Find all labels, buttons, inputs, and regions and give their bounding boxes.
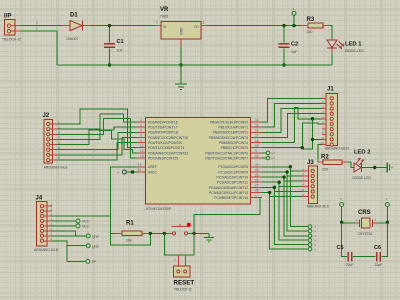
svg-text:PD7/AIN1/PCINT23: PD7/AIN1/PCINT23: [148, 156, 178, 160]
capacitor C2 wires: [283, 26, 285, 43]
svg-text:PC3/ADC3/PCINT11: PC3/ADC3/PCINT11: [217, 181, 248, 185]
connector J1 pin 6: [330, 122, 333, 125]
wire J2 pin2 staircase to chip PD6: [57, 129, 137, 153]
svg-text:C1: C1: [117, 39, 124, 45]
connector J3 pin 2: [311, 174, 314, 177]
I/P pin 1 stub: [11, 30, 22, 32]
connector J3 pin 5: [311, 190, 314, 193]
svg-text:gnd: gnd: [93, 244, 99, 248]
capacitor C5 plates: [347, 252, 349, 262]
terminal A3 circle: [308, 238, 312, 242]
svg-text:DIODE-LED: DIODE-LED: [353, 176, 372, 180]
wire junction down to J1 pin9: [313, 119, 323, 140]
terminal A4 circle: [308, 243, 312, 247]
svg-text:220: 220: [322, 168, 328, 172]
junction reset block pin1 node: [163, 232, 166, 235]
terminal AVCC input circle: [122, 170, 126, 174]
resistor R3 pins: [301, 25, 308, 27]
svg-text:18: 18: [255, 139, 259, 143]
connector J2 pin 5: [47, 143, 50, 146]
svg-text:14: 14: [255, 118, 259, 122]
terminal X1 at chip PB6: [262, 152, 266, 154]
chip pin 23 PC0 stub: [250, 166, 262, 168]
svg-text:4: 4: [140, 128, 142, 132]
connector J3 body ARDUINO-SIL6: [308, 166, 317, 203]
LED2 symbol: [354, 163, 361, 172]
svg-text:6: 6: [140, 139, 142, 143]
terminal A1 circle: [308, 229, 312, 233]
svg-text:J4: J4: [36, 196, 43, 202]
svg-text:PC1/ADC1/PCINT9: PC1/ADC1/PCINT9: [218, 170, 248, 174]
svg-text:PC2/ADC2/PCINT10: PC2/ADC2/PCINT10: [217, 175, 249, 179]
svg-text:C5: C5: [337, 245, 344, 251]
svg-text:PC4/ADC4/SDA/PCINT12: PC4/ADC4/SDA/PCINT12: [209, 186, 248, 190]
wire C6 to crystal right: [382, 223, 388, 257]
svg-text:PD1/TXD/PCINT17: PD1/TXD/PCINT17: [148, 126, 177, 130]
op-amp U1 ATMEGA328P body: [146, 118, 251, 204]
wire C5 to C6: [353, 256, 375, 258]
connector J2 pin 4: [47, 138, 50, 141]
svg-text:1uF: 1uF: [291, 50, 298, 54]
svg-text:2: 2: [140, 118, 142, 122]
capacitor C2 plates: [279, 43, 290, 45]
svg-text:AREF: AREF: [148, 165, 157, 169]
svg-text:1uF: 1uF: [117, 49, 124, 53]
terminal A0 circle: [308, 225, 312, 229]
svg-text:2: 2: [36, 21, 38, 25]
ground symbol at button: [208, 233, 210, 237]
chip pin 16 PB2 stub: [250, 131, 262, 133]
wire chip PB0 to J1 pin1: [262, 98, 322, 122]
junction power terminal: [292, 24, 295, 27]
svg-text:13: 13: [140, 154, 144, 158]
svg-text:19: 19: [255, 144, 259, 148]
connector J1 pin 1: [330, 97, 333, 100]
wire J2 pin4 over bridge to chip PD0: [57, 114, 137, 139]
power terminal circle top right: [292, 11, 296, 15]
connector RESET body TBLOCK-I2: [174, 266, 191, 277]
connector J4 pin 3: [40, 214, 43, 217]
junction VR ground on rail: [179, 63, 182, 66]
connector J2 pin 3: [47, 133, 50, 136]
chip pin 26 PC3 stub: [250, 181, 262, 183]
terminal VCC 1: [76, 219, 80, 223]
regulator VR body 7805: [161, 22, 201, 40]
connector J1 body ARDUINO-SIL10: [326, 94, 338, 146]
svg-text:25: 25: [255, 173, 259, 177]
wire crystal pin2: [372, 222, 377, 224]
svg-text:5: 5: [140, 134, 142, 138]
wire chip PB2 to J1 pin3: [262, 109, 322, 133]
svg-text:PC0/ADC0/PCINT8: PC0/ADC0/PCINT8: [218, 165, 248, 169]
svg-text:PB3/MOSI/OC2A/PCINT3: PB3/MOSI/OC2A/PCINT3: [209, 136, 248, 140]
wire LED2 to sideways ground: [362, 167, 387, 169]
diode D1 symbol: [70, 21, 82, 31]
chip pin 14 PB0 stub: [250, 121, 262, 123]
wire R1 feed from vertical: [111, 232, 116, 234]
reset block pin stubs: [178, 256, 180, 267]
wire LED1 cathode to ground rail: [331, 52, 333, 65]
wire button to ground: [188, 232, 209, 234]
svg-text:J1: J1: [327, 87, 334, 93]
sideways ground symbol: [386, 163, 388, 173]
resistor R3 body: [308, 23, 323, 28]
chip pin 6 PD4 stub: [137, 142, 146, 144]
wire chip PB5 to J1 pin6: [262, 123, 322, 148]
svg-text:VCC: VCC: [82, 220, 90, 224]
svg-text:PD3/INT1/OC2B/PCINT19: PD3/INT1/OC2B/PCINT19: [148, 136, 188, 140]
svg-text:ARDUINO-SIL10: ARDUINO-SIL10: [325, 147, 349, 151]
wire J1 pin10 to R2: [318, 145, 322, 163]
svg-text:PB7/TOSC2/XTAL2/PCINT7: PB7/TOSC2/XTAL2/PCINT7: [205, 156, 248, 160]
wire U loop to reset block: [164, 233, 194, 255]
connector J4 pin 7: [40, 234, 43, 237]
junction J1 pin9 branch: [311, 138, 314, 141]
wire J4 pin4 to VCC terminal: [52, 220, 76, 222]
connector J4 pin 5: [40, 224, 43, 227]
wire J2 pin6 to chip PD2: [57, 132, 137, 149]
wire VR output to C2 and R3: [207, 25, 301, 27]
svg-text:RESET: RESET: [174, 279, 195, 286]
wire J4 pin8 jog to gnd terminal 2: [52, 241, 86, 246]
chip pin 5 PD3 stub: [137, 136, 146, 138]
chip pin 17 PB3 stub: [250, 136, 262, 138]
junction button right node: [192, 232, 195, 235]
svg-text:27: 27: [255, 184, 259, 188]
svg-text:11: 11: [140, 144, 144, 148]
wire chip PC2 to J3 pin3 and terminal 3: [262, 177, 302, 181]
junction C2 top: [282, 24, 285, 27]
wire to crystal pin1: [342, 222, 355, 224]
connector J1 pin 3: [330, 107, 333, 110]
svg-text:PD6/AIN0/OC0A/PCINT22: PD6/AIN0/OC0A/PCINT22: [148, 151, 188, 155]
wire D1 cathode to VR input: [90, 25, 155, 27]
wire crystal left to C5: [342, 223, 347, 257]
wire down to i/p terminal: [67, 246, 86, 262]
wire R2 to LED2: [348, 162, 354, 167]
connector J3 pin 4: [311, 185, 314, 188]
terminal X2 at chip PB7: [262, 157, 266, 159]
chip pin 21 AREF stub: [137, 166, 146, 168]
svg-text:PB6/TOSC1/XTAL1/PCINT6: PB6/TOSC1/XTAL1/PCINT6: [205, 151, 248, 155]
connector J1 pin 10: [330, 143, 333, 146]
connector J1 pin 5: [330, 117, 333, 120]
svg-text:PD5/T1/OC0B/PCINT21: PD5/T1/OC0B/PCINT21: [148, 146, 185, 150]
svg-text:17: 17: [255, 134, 259, 138]
chip pin 18 PB4 stub: [250, 142, 262, 144]
connector J4 pin 6: [40, 229, 43, 232]
resistor R2 pins: [318, 161, 323, 163]
connector J4 pin 2: [40, 210, 43, 213]
junction C2 bottom: [282, 63, 285, 66]
wire I/P pin2 to D1 anode: [22, 25, 64, 27]
wire J4 pin5 to VCC terminal: [52, 225, 76, 227]
chip pin 1 PC6 stub: [250, 197, 262, 199]
LED1 emission arrows: [337, 44, 342, 49]
connector J4 pin 4: [40, 219, 43, 222]
resistor R2 body: [323, 160, 342, 165]
svg-text:PB1/OC1A/PCINT1: PB1/OC1A/PCINT1: [218, 126, 248, 130]
svg-text:gnd: gnd: [93, 234, 99, 238]
junction LED2 net: [373, 166, 376, 169]
capacitor C1 plates: [104, 43, 115, 45]
svg-text:DIODE-LED: DIODE-LED: [345, 49, 364, 53]
svg-text:TBLOCK-I2: TBLOCK-I2: [2, 38, 21, 42]
terminal X1 above crystal: [340, 203, 344, 207]
wire chip PC0 to J3 pin1 and terminal 1: [262, 167, 302, 171]
terminal gnd 1: [86, 234, 90, 238]
connector J4 pin 8: [40, 239, 43, 242]
wire AVCC terminal to chip: [126, 171, 137, 173]
svg-text:16: 16: [255, 128, 259, 132]
svg-text:PD4/T0/XCK/PCINT20: PD4/T0/XCK/PCINT20: [148, 141, 182, 145]
svg-text:1N4007: 1N4007: [66, 37, 79, 41]
svg-text:24: 24: [255, 168, 259, 172]
wire I/P pin1 down to ground rail: [22, 31, 57, 65]
chip pin 28 PC5 stub: [250, 192, 262, 194]
svg-text:AVCC: AVCC: [148, 170, 158, 174]
resistor R1 pins: [115, 232, 122, 234]
svg-text:3: 3: [140, 123, 142, 127]
connector J1 pin 4: [330, 112, 333, 115]
svg-text:22pF: 22pF: [375, 263, 383, 267]
chip pin 2 PD0 stub: [137, 121, 146, 123]
connector J1 pin 8: [330, 133, 333, 136]
chip pin 27 PC4 stub: [250, 186, 262, 188]
connector J2 pin 6: [47, 148, 50, 151]
svg-text:ARDUINO-SIL6: ARDUINO-SIL6: [307, 205, 330, 209]
chip pin 24 PC1 stub: [250, 171, 262, 173]
svg-text:L1: L1: [272, 151, 276, 155]
junction crystal right: [386, 221, 389, 224]
connector J2 pin 1: [47, 122, 50, 125]
connector J3 pin 3: [311, 180, 314, 183]
svg-text:3: 3: [203, 20, 205, 24]
svg-text:R1: R1: [126, 221, 134, 227]
connector J2 pin 2: [47, 128, 50, 131]
svg-text:22pF: 22pF: [346, 263, 354, 267]
wire AREF long vertical to reset row: [111, 167, 151, 245]
svg-text:10k: 10k: [126, 239, 132, 243]
chip pin 9 PB6 stub: [250, 152, 262, 154]
chip pin 10 PB7 stub: [250, 157, 262, 159]
wire J2 pin3 over bridge to chip PD7: [57, 118, 137, 158]
regulator VR ground pin stub: [180, 39, 182, 46]
wire R1 to button: [149, 232, 172, 234]
junction C1 bottom: [108, 63, 111, 66]
svg-text:ARDUINO-SIL8: ARDUINO-SIL8: [34, 248, 58, 252]
svg-text:C2: C2: [291, 42, 298, 48]
svg-text:26: 26: [255, 178, 259, 182]
chip pin 19 PB5 stub: [250, 147, 262, 149]
svg-text:7805: 7805: [160, 15, 168, 19]
chip pin 20 AVCC stub: [137, 171, 146, 173]
wire J4 pin3 to AREF vertical: [52, 215, 111, 217]
connector J4 body ARDUINO-SIL8: [37, 202, 48, 247]
svg-text:12: 12: [140, 149, 144, 153]
terminal A5 circle: [308, 247, 312, 251]
svg-text:GND: GND: [180, 27, 184, 35]
svg-text:R3: R3: [307, 17, 315, 23]
connector J1 pin 9: [330, 138, 333, 141]
connector I/P body: [5, 20, 16, 36]
svg-text:1: 1: [255, 194, 257, 198]
wire J2 pin8 to chip PD4: [57, 143, 137, 160]
svg-text:L2: L2: [272, 156, 276, 160]
svg-text:PC6/RESET/PCINT14: PC6/RESET/PCINT14: [214, 196, 248, 200]
chip pin 3 PD1 stub: [137, 126, 146, 128]
wire junction branch to chip PB5: [302, 139, 312, 148]
svg-text:VI: VI: [163, 25, 166, 29]
svg-text:ATMEGA328P: ATMEGA328P: [146, 206, 172, 211]
connector J1 pin 7: [330, 128, 333, 131]
svg-text:1: 1: [156, 20, 158, 24]
capacitor C6 plates: [376, 252, 378, 262]
svg-text:23: 23: [255, 163, 259, 167]
junction reset node: [149, 232, 152, 235]
svg-text:I/P: I/P: [4, 14, 11, 20]
svg-text:PB0/ICP1/CLKO/PCINT0: PB0/ICP1/CLKO/PCINT0: [210, 120, 248, 124]
svg-text:PB4/MISO/PCINT4: PB4/MISO/PCINT4: [219, 141, 248, 145]
connector J2 body ARDUINO-SIL8: [44, 119, 53, 163]
diode D1 pins: [62, 25, 70, 27]
junction J1 pin5 net: [311, 117, 314, 120]
wire J4 pin7 to gnd terminal 1: [52, 235, 86, 237]
connector J2 pin 7: [47, 153, 50, 156]
capacitor C1 wires: [109, 26, 111, 43]
wire J2 pin7 to chip PD3: [57, 137, 137, 154]
chip pin 25 PC2 stub: [250, 176, 262, 178]
regulator VR pin 1 stub: [155, 25, 161, 27]
LED1 symbol: [327, 40, 337, 48]
svg-text:CRYSTAL: CRYSTAL: [358, 232, 373, 236]
regulator VR pin 3 stub: [201, 25, 207, 27]
svg-text:PB5/SCK/PCINT5: PB5/SCK/PCINT5: [221, 146, 248, 150]
svg-text:PD0/RXD/PCINT16: PD0/RXD/PCINT16: [148, 120, 178, 124]
svg-text:CRS: CRS: [358, 210, 371, 216]
svg-text:15: 15: [255, 123, 259, 127]
svg-text:21: 21: [138, 163, 142, 167]
connector J4 pin 1: [40, 205, 43, 208]
terminal A2 circle: [308, 234, 312, 238]
svg-text:28: 28: [255, 189, 259, 193]
svg-text:VCC: VCC: [82, 224, 90, 228]
ground rail wire bottom of power section: [57, 64, 332, 66]
junction C1 top: [108, 24, 111, 27]
wire chip PB4 to J1 pin5: [262, 108, 322, 143]
wire VR ground to ground symbol: [180, 65, 182, 84]
svg-text:PC5/ADC5/SCL/PCINT13: PC5/ADC5/SCL/PCINT13: [209, 191, 248, 195]
connector J3 pin 1: [311, 169, 314, 172]
wire chip PC3 to J3 pin4 and terminal 4: [262, 182, 302, 186]
svg-text:LED 1: LED 1: [345, 42, 362, 48]
svg-text:PD2/INT0/PCINT18: PD2/INT0/PCINT18: [148, 131, 178, 135]
svg-text:1: 1: [36, 27, 38, 31]
wire PC6 reset route to button: [194, 198, 260, 234]
svg-text:ARDUINO-SIL8: ARDUINO-SIL8: [44, 166, 68, 170]
svg-text:9: 9: [255, 149, 257, 153]
wire J2 pin1 over bridge to chip PD5: [57, 109, 137, 148]
chip pin 12 PD6 stub: [137, 152, 146, 154]
resistor R1 body: [122, 231, 142, 236]
terminal gnd 2: [86, 244, 90, 248]
wire chip PC4 to J3 pin5 and terminal 5: [262, 187, 302, 191]
junction PB5 row: [301, 146, 304, 149]
wire R3 to LED1 anode: [330, 26, 332, 38]
svg-text:PB2/SS/OC1B/PCINT2: PB2/SS/OC1B/PCINT2: [213, 131, 248, 135]
LED2 emission arrows: [356, 159, 360, 164]
terminal X2 above crystal: [385, 203, 389, 207]
svg-text:D1: D1: [70, 13, 78, 19]
svg-text:C6: C6: [374, 245, 381, 251]
svg-text:J3: J3: [307, 160, 314, 166]
I/P pin 2 stub: [11, 25, 22, 27]
wire J2 pin5 to chip PD1: [57, 127, 137, 144]
wire chip PC5 to J3 pin6 and terminal 6: [262, 193, 302, 197]
svg-text:LED 2: LED 2: [354, 150, 370, 156]
chip pin 15 PB1 stub: [250, 126, 262, 128]
junction crystal left: [340, 221, 343, 224]
svg-text:220: 220: [307, 30, 313, 34]
chip pin 11 PD5 stub: [137, 147, 146, 149]
svg-text:J2: J2: [43, 113, 50, 119]
push button actuator: [172, 226, 191, 228]
wire VR ground pin to rail: [180, 46, 182, 65]
svg-text:VR: VR: [160, 7, 169, 13]
chip pin 13 PD7 stub: [137, 157, 146, 159]
crystal CRS body: [362, 218, 370, 228]
chip pin 4 PD2 stub: [137, 131, 146, 133]
wire J4 pin6 jog to gnd terminal 1: [52, 231, 86, 236]
svg-text:in: in: [117, 170, 120, 174]
junction AVCC: [131, 170, 134, 173]
wire chip PC1 to J3 pin2 and terminal 2: [262, 172, 302, 176]
wire chip PB3 to J1 pin4: [262, 114, 322, 138]
connector J3 pin 6: [311, 195, 314, 198]
connector J1 pin 2: [330, 102, 333, 105]
svg-text:VO: VO: [194, 25, 199, 29]
terminal i/p bottom: [86, 259, 90, 263]
svg-text:10: 10: [255, 154, 259, 158]
svg-text:TBLOCK-I2: TBLOCK-I2: [174, 288, 192, 292]
push button RESET contacts: [172, 232, 175, 235]
ground symbol below VR: [175, 83, 187, 85]
wire chip PB1 to J1 pin2: [262, 103, 322, 127]
svg-text:20: 20: [138, 168, 142, 172]
connector J2 pin 8: [47, 158, 50, 161]
terminal VCC 2: [76, 224, 80, 228]
